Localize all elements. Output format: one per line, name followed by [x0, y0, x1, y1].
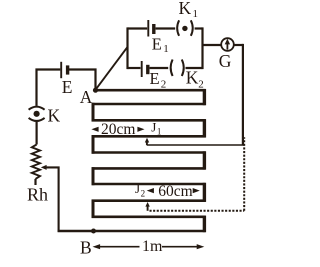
left U-turn cap L7-L8 [92, 200, 95, 219]
dimension arrow: 60cm right arrowhead [193, 188, 200, 193]
node B junction dot [91, 229, 96, 234]
potentiometer wire segment L9 (to B) [58, 230, 206, 233]
battery E1 long plate [147, 20, 149, 37]
wire: K1 to top-right corner [195, 27, 203, 29]
potentiometer wire segment L5 [92, 167, 206, 170]
wire: K2 to bottom-right corner [186, 67, 203, 69]
svg-text:1: 1 [193, 8, 199, 20]
wire: E to left corner and down to key K [37, 70, 61, 106]
wire: E2 to K2 [150, 67, 169, 69]
svg-text:1m: 1m [142, 238, 163, 255]
wire: diagonal from sub-circuit left side to A [95, 47, 127, 90]
battery E2 short plate [146, 65, 149, 74]
svg-text:1: 1 [157, 127, 162, 137]
wire: sub-circuit right side [201, 27, 203, 69]
wire: A up to E branch corner [69, 70, 96, 92]
svg-text:20cm: 20cm [101, 121, 135, 138]
svg-text:G: G [219, 51, 232, 71]
jockey J2 arrow [145, 202, 149, 207]
wire: K down to rheostat [35, 122, 37, 145]
svg-text:1: 1 [163, 43, 169, 55]
wire: wiper to right then down to B wire [46, 167, 93, 231]
svg-text:60cm: 60cm [158, 183, 192, 200]
potentiometer wire segment L4 [92, 151, 206, 154]
svg-text:J: J [151, 120, 156, 135]
potentiometer wire segment L7 [92, 199, 206, 202]
key K2 right contact arc (open) [182, 60, 184, 77]
right U-turn cap L8-L9 [203, 216, 206, 233]
left U-turn cap L1-L2 [92, 103, 95, 122]
potentiometer wire segment L0 (A to right) [96, 89, 206, 92]
key K1 plug dot [182, 26, 187, 31]
right U-turn cap L6-L7 [203, 183, 206, 202]
wire: top branch left of E1 [128, 27, 148, 29]
jockey J1 arrow [145, 138, 149, 143]
key K2 left contact arc (open) [171, 60, 173, 77]
svg-text:K: K [179, 0, 192, 18]
wire: galvanometer branch from right side [203, 44, 222, 46]
rheostat Rh zigzag [32, 145, 40, 179]
svg-text:2: 2 [141, 188, 146, 198]
wire: bottom branch left of E2 [128, 67, 141, 69]
potentiometer wire segment L2 [92, 119, 206, 122]
key K bottom contact arc [29, 118, 45, 121]
svg-text:2: 2 [198, 79, 204, 91]
svg-text:E: E [150, 69, 160, 88]
dimension arrow: 20cm right arrowhead [137, 127, 144, 132]
battery E2 long plate [141, 61, 143, 77]
svg-text:Rh: Rh [27, 185, 48, 205]
svg-text:A: A [80, 87, 93, 107]
key K plug dot [34, 111, 40, 117]
dimension arrow: 20cm left arrowhead [91, 127, 98, 132]
galvanometer G needle arrow [226, 43, 228, 50]
key K1 right contact arc [191, 20, 193, 36]
rheostat Rh bottom stub [34, 179, 36, 185]
potentiometer wire segment L3 [92, 135, 206, 138]
key K top contact arc [29, 107, 45, 110]
rheostat wiper arrow [41, 165, 47, 170]
battery E short plate [66, 65, 69, 74]
dotted wire: jockey J2 lead (vertical up) [243, 137, 245, 211]
svg-text:2: 2 [161, 79, 167, 91]
right U-turn cap L2-L3 [203, 119, 206, 137]
wire: E1 to K1 [156, 27, 176, 29]
dimension arrow: 60cm left arrowhead [147, 188, 154, 193]
potentiometer wire segment L8 [92, 216, 206, 219]
svg-text:K: K [186, 68, 199, 88]
galvanometer G circle [221, 38, 234, 51]
wire: jockey J1 lead to G [147, 144, 244, 146]
left U-turn cap L3-L4 [92, 135, 95, 154]
right U-turn cap L4-L5 [203, 151, 206, 169]
dotted wire: jockey J2 lead (horizontal) [150, 210, 245, 212]
svg-text:B: B [80, 238, 92, 258]
wire: right vertical down to jockey line [242, 44, 244, 145]
node A junction dot [93, 88, 98, 93]
svg-text:J: J [135, 181, 140, 196]
left U-turn cap L5-L6 [92, 167, 95, 185]
wire: G to right corner [234, 44, 243, 46]
dimension line: 1m with arrows [93, 244, 101, 249]
right U-turn cap L0-L1 [203, 89, 206, 105]
battery E long plate [60, 62, 62, 78]
key K1 left contact arc [177, 20, 179, 36]
svg-text:E: E [152, 34, 162, 53]
wire: sub-circuit left side [126, 27, 128, 69]
svg-text:E: E [62, 77, 73, 97]
potentiometer wire segment L6 [92, 183, 206, 186]
potentiometer wire segment L1 [92, 103, 206, 106]
svg-text:K: K [48, 105, 61, 125]
battery E1 short plate [152, 24, 155, 34]
